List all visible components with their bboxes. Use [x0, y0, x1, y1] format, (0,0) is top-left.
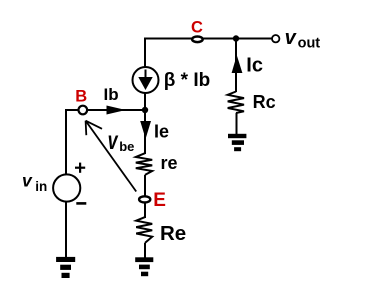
wire horizontal node B to junction [66, 109, 145, 111]
ground below vin [56, 257, 75, 278]
voltage arrow vbe [86, 121, 137, 192]
svg-text:re: re [161, 153, 178, 173]
junction dot at base node [142, 107, 148, 113]
junction dot at collector [233, 35, 239, 41]
svg-text:out: out [298, 36, 321, 52]
wire node B corner down to vin [65, 109, 67, 175]
resistor re [136, 153, 152, 175]
svg-text:E: E [153, 190, 166, 211]
svg-text:v: v [285, 27, 298, 49]
svg-text:v: v [22, 171, 33, 191]
node B [79, 106, 88, 115]
label vin [22, 171, 47, 195]
wire Re to ground [144, 243, 146, 258]
resistor Re [136, 217, 152, 243]
svg-text:v: v [108, 126, 119, 155]
wire re to Re [144, 175, 146, 218]
node C [192, 37, 203, 43]
label vbe [108, 126, 135, 155]
svg-text:B: B [75, 88, 87, 106]
plus sign [75, 163, 85, 173]
svg-text:Ie: Ie [154, 122, 169, 142]
current source U1 beta*Ib [133, 67, 159, 93]
wire Rc to ground [236, 113, 238, 135]
wire collector junction down to Rc [235, 39, 237, 93]
svg-text:Ic: Ic [246, 55, 263, 77]
svg-text:Re: Re [160, 222, 186, 245]
svg-text:in: in [35, 179, 47, 194]
wire vertical from top wire down to current source [144, 38, 146, 68]
current arrow Ib [107, 106, 126, 115]
terminal vout [272, 35, 279, 42]
current arrow Ic [232, 55, 243, 73]
svg-text:Rc: Rc [253, 92, 276, 112]
label vout [285, 27, 321, 52]
svg-text:C: C [191, 18, 203, 36]
svg-text:be: be [119, 139, 134, 154]
svg-text:β * Ib: β * Ib [164, 70, 210, 91]
resistor Rc [228, 92, 244, 114]
node E [139, 196, 150, 202]
wire junction down to re [144, 110, 146, 154]
wire vin to ground [65, 202, 67, 259]
ground below Rc [228, 134, 246, 151]
wire top horizontal C to vout [145, 38, 272, 40]
svg-text:Ib: Ib [104, 85, 119, 104]
ground below Re [135, 257, 153, 276]
minus sign [76, 202, 86, 205]
voltage source vin [53, 174, 80, 201]
wire current source bottom to junction [144, 93, 146, 110]
current arrow Ie [140, 121, 151, 139]
